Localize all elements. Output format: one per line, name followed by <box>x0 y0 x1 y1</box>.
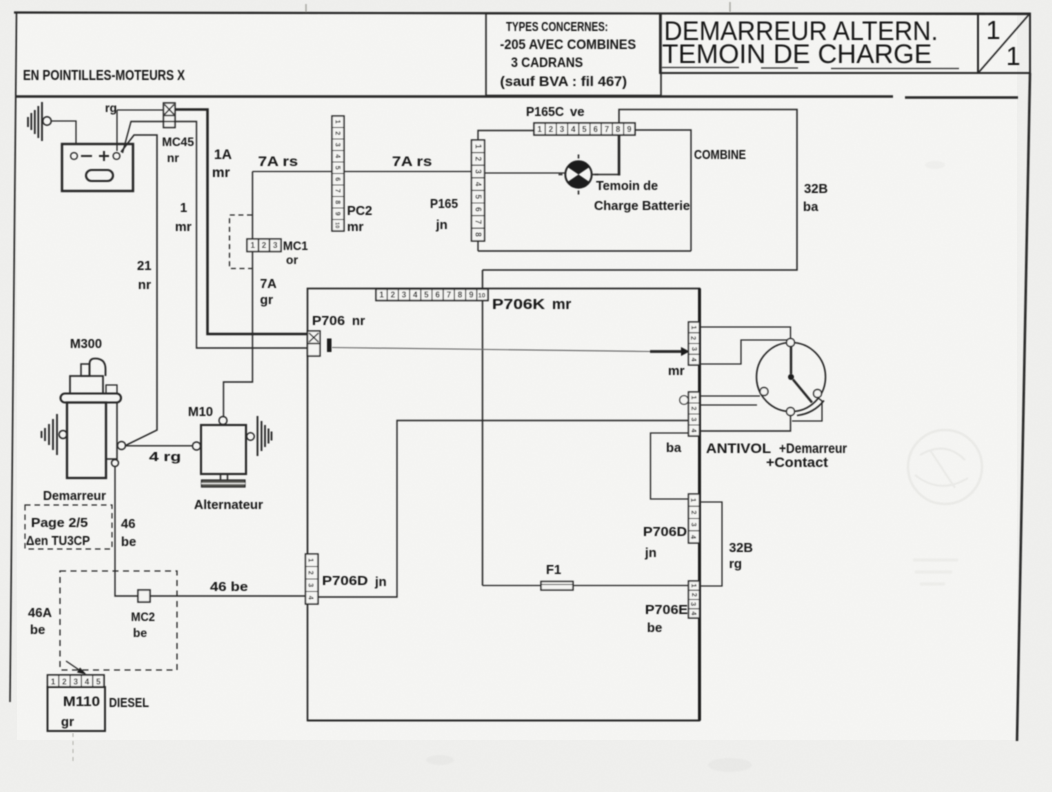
svg-text:1A: 1A <box>214 146 232 162</box>
svg-text:be: be <box>133 626 147 640</box>
dashed box page 2/5 <box>25 505 112 549</box>
svg-text:3 CADRANS: 3 CADRANS <box>511 55 583 70</box>
svg-text:3: 3 <box>690 418 697 422</box>
dashed box MC2 <box>60 571 177 670</box>
svg-text:1: 1 <box>307 558 314 562</box>
page left border <box>10 13 17 702</box>
arrow to M110 <box>66 661 80 671</box>
starter collar <box>61 394 122 403</box>
svg-text:P706D: P706D <box>643 524 687 539</box>
svg-text:9: 9 <box>334 212 341 216</box>
svg-text:Page 2/5: Page 2/5 <box>31 515 88 530</box>
svg-text:3: 3 <box>689 602 696 606</box>
svg-text:1: 1 <box>51 678 56 687</box>
svg-text:7: 7 <box>605 125 610 134</box>
svg-text:F1: F1 <box>546 562 561 577</box>
svg-text:Alternateur: Alternateur <box>194 497 263 512</box>
wire 21 nr : battery + to starter <box>121 135 157 446</box>
starter solenoid <box>106 403 117 460</box>
page top border <box>14 13 1030 15</box>
svg-text:5: 5 <box>424 291 429 300</box>
connector P165 jn (vertical strip) <box>472 140 485 241</box>
P165 rotated digits <box>473 144 482 237</box>
box bottom edge <box>308 720 700 722</box>
svg-text:mr: mr <box>552 296 571 313</box>
svg-text:rg: rg <box>729 556 742 571</box>
svg-text:2: 2 <box>690 593 697 597</box>
connector tab oval <box>680 396 689 405</box>
svg-text:be: be <box>30 622 45 637</box>
svg-text:1: 1 <box>180 200 187 215</box>
svg-text:2: 2 <box>62 678 67 687</box>
svg-text:nr: nr <box>138 277 151 292</box>
svg-text:ba: ba <box>666 440 682 455</box>
svg-text:Demarreur: Demarreur <box>43 488 106 503</box>
svg-text:4: 4 <box>689 535 696 539</box>
svg-text:2: 2 <box>549 125 554 134</box>
svg-text:1: 1 <box>689 498 696 502</box>
header bottom border <box>15 97 1018 98</box>
svg-text:+Demarreur: +Demarreur <box>779 441 848 456</box>
svg-text:P165: P165 <box>430 196 458 211</box>
svg-text:4: 4 <box>690 358 697 362</box>
svg-text:7A rs: 7A rs <box>392 153 432 169</box>
wire 1 mr : battery + to P706 <box>123 122 308 349</box>
svg-text:3: 3 <box>690 347 697 351</box>
svg-text:46A: 46A <box>28 605 52 620</box>
svg-text:8: 8 <box>334 200 341 204</box>
small connector rotated digits <box>307 325 697 615</box>
svg-text:8: 8 <box>616 125 621 134</box>
header: types-concernes box <box>486 14 661 96</box>
svg-text:3: 3 <box>690 523 697 527</box>
svg-text:1: 1 <box>690 396 697 400</box>
svg-text:7: 7 <box>334 189 341 193</box>
wire 1A mr : MC45 to P706 (thick) <box>175 110 308 335</box>
title underlines <box>662 68 959 69</box>
svg-text:gr: gr <box>61 714 74 729</box>
svg-text:be: be <box>647 620 662 635</box>
svg-text:8: 8 <box>458 291 463 300</box>
dashed stub below M110 <box>72 733 74 764</box>
connector P165C ve (horizontal strip) <box>534 123 635 135</box>
svg-text:5: 5 <box>334 166 341 170</box>
connector MC1 or <box>247 239 281 252</box>
svg-text:P706D: P706D <box>322 573 368 588</box>
svg-text:PC2: PC2 <box>347 203 372 218</box>
svg-text:1: 1 <box>537 125 542 134</box>
svg-text:nr: nr <box>167 151 179 165</box>
svg-text:1: 1 <box>690 584 697 588</box>
wire 32B rg loop <box>700 502 723 586</box>
svg-text:2: 2 <box>689 336 696 340</box>
svg-text:ANTIVOL: ANTIVOL <box>706 441 771 456</box>
svg-text:5: 5 <box>473 194 482 199</box>
wire 32B ba : P165C up right and down to P706K <box>483 110 798 271</box>
svg-text:mr: mr <box>668 363 685 378</box>
wire lamp to P165C cell 8 <box>592 174 619 176</box>
wire MC21 to switch top <box>700 327 791 339</box>
starter upper body <box>70 376 103 394</box>
svg-text:4: 4 <box>571 125 576 134</box>
wire inside box: antivol to P706D left <box>318 421 689 598</box>
svg-text:M110: M110 <box>63 693 100 709</box>
starter terminals <box>118 442 126 450</box>
svg-text:3: 3 <box>473 169 482 174</box>
wire 4 rg : starter to alternator <box>126 445 193 447</box>
svg-text:46 be: 46 be <box>210 579 248 594</box>
ground (battery) <box>28 102 42 141</box>
svg-text:(sauf BVA : fil 467): (sauf BVA : fil 467) <box>500 74 627 89</box>
svg-text:32B: 32B <box>804 181 828 196</box>
svg-text:1: 1 <box>986 15 1000 45</box>
svg-text:M300: M300 <box>70 336 102 351</box>
svg-text:4: 4 <box>85 678 90 687</box>
faint scan ticks <box>306 2 730 12</box>
svg-text:P706: P706 <box>312 313 345 328</box>
svg-text:5: 5 <box>582 125 587 134</box>
svg-text:10: 10 <box>334 222 340 228</box>
wire arrow into MC21 (thick) <box>650 350 682 353</box>
svg-text:gr: gr <box>260 292 273 307</box>
svg-text:46: 46 <box>121 516 135 531</box>
svg-text:1: 1 <box>379 291 384 300</box>
svg-text:2: 2 <box>391 291 396 300</box>
svg-text:Temoin de: Temoin de <box>596 178 658 193</box>
svg-text:4: 4 <box>689 611 696 615</box>
svg-text:2: 2 <box>473 157 482 162</box>
wire ba rectangle <box>651 433 689 499</box>
faint watermark stamp <box>908 430 982 584</box>
svg-text:nr: nr <box>352 313 365 328</box>
svg-text:Charge Batterie: Charge Batterie <box>594 198 690 213</box>
page right border (scan edge) <box>1017 73 1030 741</box>
svg-text:P706K: P706K <box>492 296 545 313</box>
svg-text:mr: mr <box>212 164 230 180</box>
wire MC21 stepped to switch <box>700 340 791 364</box>
svg-text:jn: jn <box>374 574 387 589</box>
svg-text:3: 3 <box>402 291 407 300</box>
battery <box>62 144 133 191</box>
svg-text:1: 1 <box>1006 41 1020 71</box>
PC2 rotated digits <box>334 120 341 229</box>
connector MC21 (antivol upper) <box>689 322 700 365</box>
svg-text:8: 8 <box>473 232 482 237</box>
svg-text:7A: 7A <box>260 276 277 291</box>
wire 7A rs : to P165 <box>253 171 472 173</box>
starter M300: dome <box>90 359 106 377</box>
ignition switch ANTIVOL <box>757 343 826 412</box>
svg-text:7: 7 <box>447 291 452 300</box>
svg-text:or: or <box>286 253 298 267</box>
svg-text:EN POINTILLES-MOTEURS X: EN POINTILLES-MOTEURS X <box>23 67 185 84</box>
svg-text:jn: jn <box>644 545 657 560</box>
svg-text:10: 10 <box>478 293 486 300</box>
alternator M10 <box>201 425 246 474</box>
svg-text:4: 4 <box>473 182 482 187</box>
svg-text:4: 4 <box>690 429 697 433</box>
svg-text:2: 2 <box>262 241 267 250</box>
svg-text:1: 1 <box>689 325 696 329</box>
connector antivol lower (4-way) <box>689 392 700 436</box>
connector P706D jn (left strip) <box>306 554 319 604</box>
wire rg : battery + to MC45 <box>117 110 164 151</box>
svg-text:mr: mr <box>175 219 192 234</box>
ground (starter) <box>42 414 58 455</box>
starter main body <box>67 403 106 479</box>
svg-text:4 rg: 4 rg <box>149 449 181 464</box>
svg-text:P165C: P165C <box>526 104 565 119</box>
svg-text:1: 1 <box>473 144 482 149</box>
wire switch right contact loop <box>792 398 822 422</box>
svg-text:2: 2 <box>334 131 341 135</box>
svg-text:TEMOIN DE CHARGE: TEMOIN DE CHARGE <box>662 39 932 69</box>
svg-text:7: 7 <box>473 220 482 225</box>
connector M110 gr <box>48 675 105 687</box>
svg-text:6: 6 <box>473 207 482 212</box>
header: title box <box>660 14 978 74</box>
svg-text:DIESEL: DIESEL <box>109 695 149 710</box>
wire switch bottom contact to connector <box>700 416 791 432</box>
wire 7A gr : down to alternator <box>224 172 253 417</box>
wire P165 to lamp <box>485 172 566 174</box>
svg-text:Δen TU3CP: Δen TU3CP <box>26 533 90 548</box>
svg-text:9: 9 <box>469 291 474 300</box>
svg-text:6: 6 <box>435 291 440 300</box>
svg-text:ba: ba <box>803 199 819 214</box>
faint smudges <box>426 161 945 772</box>
connector MC45 nr <box>164 103 176 128</box>
svg-text:6: 6 <box>593 125 598 134</box>
connector P706 nr <box>308 331 321 356</box>
svg-text:COMBINE: COMBINE <box>694 147 746 162</box>
svg-text:be: be <box>121 534 136 549</box>
wire ground to battery minus <box>52 121 77 144</box>
fuse F1 <box>541 582 573 591</box>
connector MC2 be <box>138 590 150 602</box>
wire P706 to MC21 (faint thin) <box>332 348 650 352</box>
svg-text:P706E: P706E <box>645 602 688 617</box>
connector P706K mr (top strip) <box>376 289 488 301</box>
svg-text:3: 3 <box>334 143 341 147</box>
svg-text:3: 3 <box>73 678 78 687</box>
svg-text:MC1: MC1 <box>283 239 308 253</box>
wire F1 line <box>483 585 689 587</box>
svg-text:+Contact: +Contact <box>766 455 829 470</box>
svg-text:4: 4 <box>413 291 418 300</box>
svg-text:3: 3 <box>307 583 314 587</box>
ground (alternator) <box>258 416 272 456</box>
svg-text:32B: 32B <box>729 540 753 555</box>
svg-text:3: 3 <box>560 125 565 134</box>
svg-text:MC2: MC2 <box>131 610 155 624</box>
big box P706K <box>308 289 700 721</box>
svg-text:9: 9 <box>627 125 632 134</box>
dashed option box (moteurs X) <box>230 215 253 269</box>
svg-text:7A rs: 7A rs <box>258 153 298 169</box>
svg-text:1: 1 <box>250 241 255 250</box>
strip digits <box>51 125 632 687</box>
svg-text:rg: rg <box>105 101 117 115</box>
junction stub <box>327 339 332 353</box>
svg-text:M10: M10 <box>188 404 213 419</box>
svg-text:3: 3 <box>273 241 278 250</box>
svg-text:6: 6 <box>334 177 341 181</box>
svg-text:MC45: MC45 <box>162 135 194 149</box>
header: page box diagonal <box>979 15 1029 73</box>
svg-text:ve: ve <box>570 104 584 119</box>
COMBINE box outline <box>478 130 691 251</box>
svg-text:5: 5 <box>96 678 101 687</box>
svg-text:4: 4 <box>307 596 314 600</box>
svg-text:TYPES CONCERNES:: TYPES CONCERNES: <box>506 19 608 34</box>
header: page 1/1 box <box>978 14 1030 74</box>
svg-text:-205 AVEC COMBINES: -205 AVEC COMBINES <box>500 37 636 52</box>
wires lower connector to switch left contact <box>700 396 761 405</box>
svg-text:mr: mr <box>347 219 364 234</box>
connector P706D jn (right) <box>689 494 700 543</box>
svg-text:1: 1 <box>334 120 341 124</box>
svg-text:21: 21 <box>137 258 151 273</box>
lamp temoin de charge <box>565 161 591 187</box>
connector P706E be <box>689 581 700 618</box>
svg-text:2: 2 <box>307 571 314 575</box>
svg-text:jn: jn <box>435 217 448 232</box>
svg-text:2: 2 <box>690 407 697 411</box>
wire 46 be : starter down to MC2 and P706D <box>115 467 306 597</box>
svg-text:2: 2 <box>689 510 696 514</box>
alternator base <box>221 474 228 480</box>
svg-text:4: 4 <box>334 154 341 158</box>
connector PC2 mr (vertical strip) <box>332 116 344 231</box>
